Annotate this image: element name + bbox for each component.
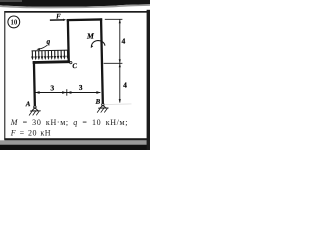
svg-text:4: 4 (123, 81, 127, 90)
svg-text:М = 30 кН·м; q = 10 кН/м;: М = 30 кН·м; q = 10 кН/м; (10, 118, 128, 127)
frame right column (to B) (101, 18, 103, 104)
frame beam A-C (33, 60, 70, 64)
force F arrow (50, 19, 64, 21)
svg-text:A: A (25, 100, 31, 108)
load label leader arrow (39, 45, 47, 49)
svg-text:4: 4 (122, 36, 126, 45)
svg-text:3: 3 (50, 83, 54, 92)
problem number badge circle 10 (8, 16, 20, 28)
scan dark band right (147, 10, 150, 150)
svg-text:F: F (56, 12, 61, 20)
right dimension line 4+4: top tick (105, 18, 123, 20)
page background (0, 0, 150, 150)
frame top beam (67, 18, 102, 21)
svg-text:B: B (95, 98, 101, 106)
right arrowhead at B (96, 91, 100, 94)
card border bottom (4, 138, 147, 140)
distributed load q top line (32, 49, 70, 52)
middle tick (66, 89, 68, 96)
vertical dimension line (119, 19, 121, 102)
svg-text:3: 3 (79, 83, 83, 92)
svg-text:q: q (46, 37, 50, 46)
bottom dimension line 3+3 (35, 92, 100, 94)
support A ground hatching (29, 111, 39, 115)
moment M arc arrow (91, 40, 105, 46)
scan dark band top (0, 0, 150, 7)
scan dark band bottom (0, 145, 150, 150)
frame column C to top (67, 19, 70, 63)
support B ground hatching (97, 108, 107, 112)
joint C hinge circle (70, 62, 72, 64)
svg-text:M: M (86, 31, 95, 40)
frame left column A (33, 61, 36, 106)
svg-text:10: 10 (11, 19, 18, 26)
support A pin (34, 106, 36, 108)
faint ground line right of B (105, 103, 131, 106)
svg-text:C: C (72, 62, 77, 70)
card border left (4, 11, 5, 140)
distributed load q arrows (32, 50, 67, 58)
svg-text:F = 20 кН: F = 20 кН (10, 128, 51, 137)
card border top (4, 11, 147, 13)
support B pin (102, 103, 104, 105)
mid tick (104, 62, 123, 64)
left arrowhead at A (35, 91, 39, 94)
